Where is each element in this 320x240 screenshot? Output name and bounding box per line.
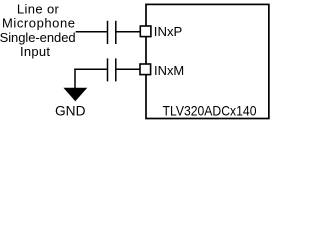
wire: vertical drop to ground — [74, 69, 76, 89]
node: Line or Microphone Single-ended Input label — [0, 2, 76, 60]
svg-text:Line or: Line or — [17, 2, 60, 17]
IC U1 TLV320ADCx140 body — [146, 4, 269, 118]
wire: GND riser corner to C2 — [74, 68, 107, 70]
ground symbol triangle — [63, 88, 87, 101]
wire: input to C1 — [76, 31, 108, 33]
svg-text:TLV320ADCx140: TLV320ADCx140 — [163, 103, 257, 118]
svg-text:INxP: INxP — [154, 25, 183, 39]
svg-text:GND: GND — [55, 103, 86, 118]
wire: C2 to INxM pin — [116, 68, 141, 70]
svg-text:Microphone: Microphone — [2, 16, 75, 31]
capacitor C2 — [108, 58, 116, 81]
capacitor C1 — [108, 21, 116, 44]
wire: C1 to INxP pin — [116, 31, 141, 33]
pin INxM terminal square — [140, 64, 151, 75]
pin INxP terminal square — [140, 26, 151, 37]
svg-text:INxM: INxM — [154, 64, 184, 78]
svg-text:Input: Input — [20, 44, 50, 59]
svg-text:Single-ended: Single-ended — [0, 30, 76, 45]
